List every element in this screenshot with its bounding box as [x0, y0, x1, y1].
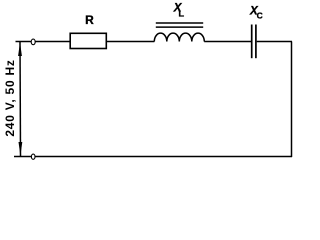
arrowhead up (top of source arrow): [18, 42, 22, 56]
inductor XL coil (4 loops): [154, 33, 204, 41]
terminal (bottom input): [31, 154, 35, 159]
arrowhead down (bottom of source arrow): [19, 142, 23, 156]
svg-text:R: R: [85, 13, 94, 27]
wire from top terminal to resistor: [35, 41, 71, 43]
inductor core line lower: [156, 26, 203, 28]
capacitor XC plate left: [251, 25, 253, 59]
wire left vertical (source dimension line): [19, 42, 22, 157]
resistor R: [70, 33, 106, 48]
inductor core line upper: [156, 22, 203, 24]
wire top-left horizontal segment: [16, 41, 32, 43]
capacitor XC plate right: [255, 25, 257, 59]
wire inductor to capacitor: [204, 41, 251, 43]
terminal (top input): [31, 39, 35, 45]
svg-text:240 V, 50 Hz: 240 V, 50 Hz: [3, 59, 17, 136]
wire right vertical: [291, 42, 293, 158]
svg-text:L: L: [178, 9, 184, 20]
svg-text:C: C: [257, 11, 263, 21]
wire capacitor to right corner: [257, 41, 292, 43]
wire bottom horizontal: [14, 156, 292, 158]
wire resistor to inductor: [106, 41, 154, 43]
